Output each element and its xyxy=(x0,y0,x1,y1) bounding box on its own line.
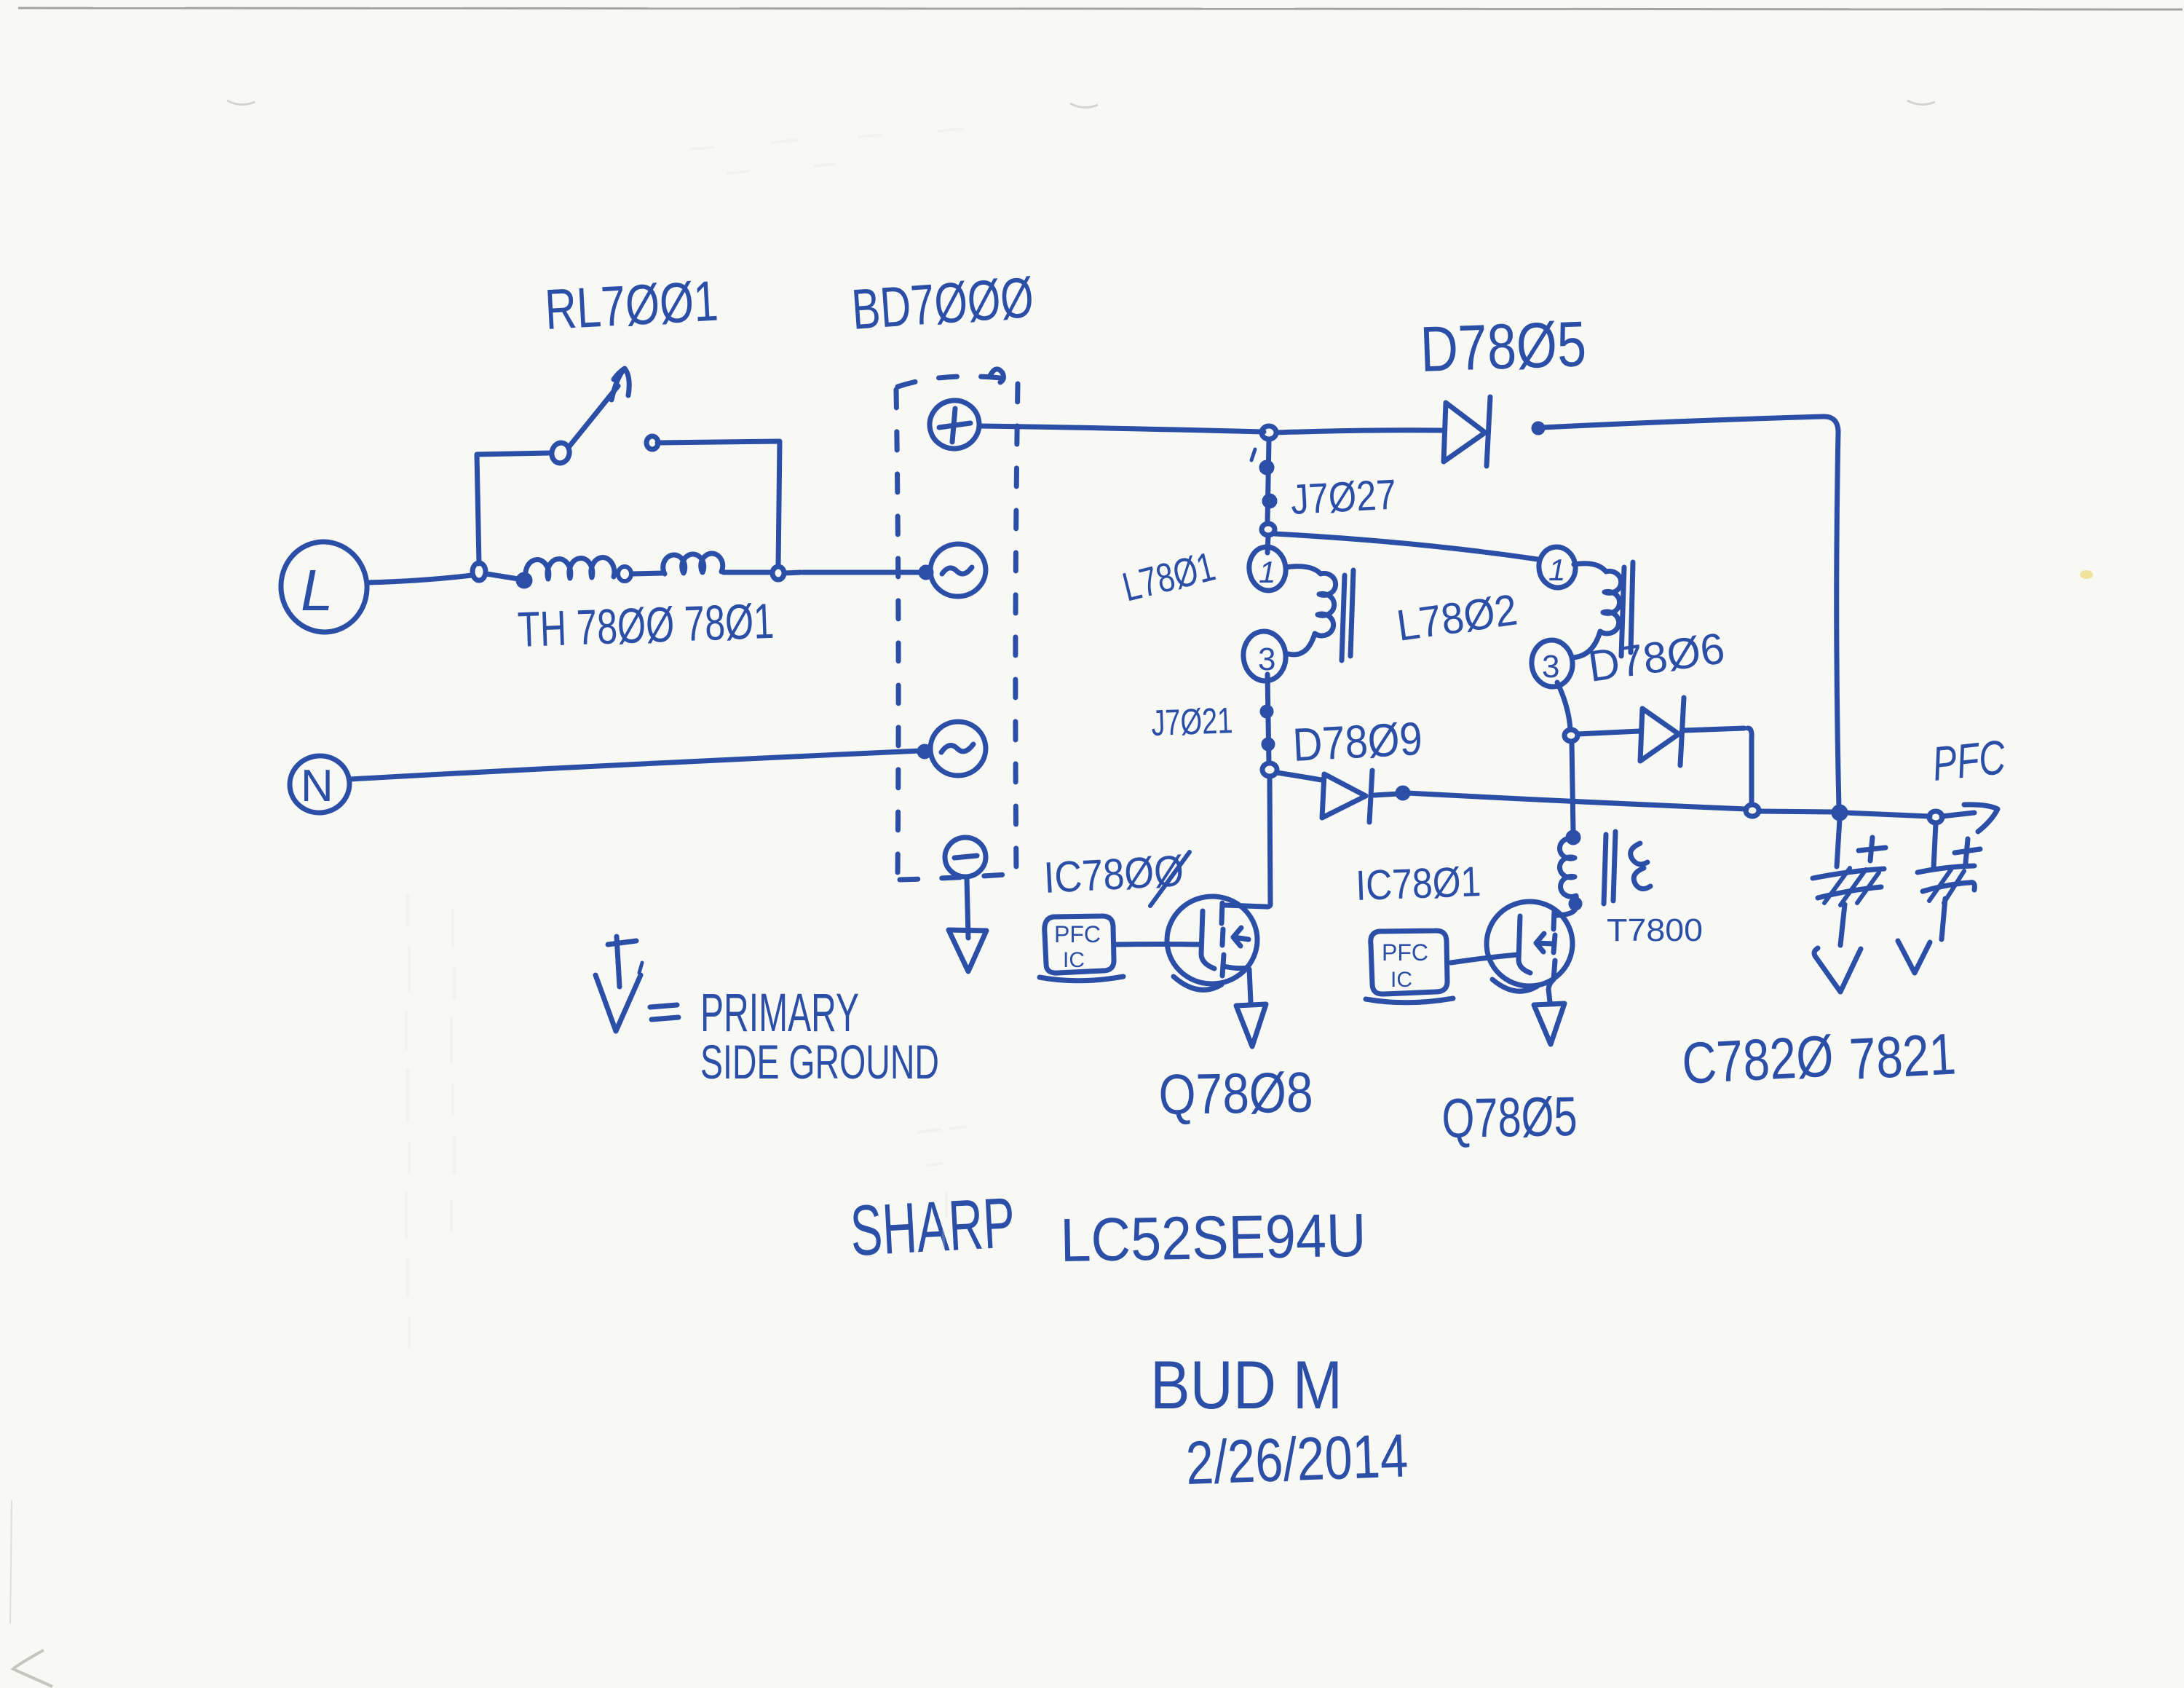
wire L to relay network xyxy=(367,575,472,583)
wire to TH7801 xyxy=(632,573,662,574)
paper fleck xyxy=(2080,570,2093,579)
relay RL7001 bypass left leg xyxy=(477,453,550,564)
transformer T7800 secondary winding xyxy=(1631,843,1650,889)
svg-text:PFC: PFC xyxy=(1382,939,1428,966)
wire D7806 node down to T7800 xyxy=(1572,741,1573,833)
wire D7805 to right rail corner xyxy=(1543,417,1838,431)
bridge BD7000 dashed outline xyxy=(896,376,1018,880)
wire junction down to Q7808 drain xyxy=(1225,777,1270,907)
svg-text:BD7ØØØ: BD7ØØØ xyxy=(850,265,1036,342)
slash on IC7800 label xyxy=(1150,852,1190,906)
junction dot PFC node xyxy=(1834,807,1845,819)
node between thermistors xyxy=(618,567,631,581)
wire N to bridge ~ terminal xyxy=(350,751,920,779)
wire junction down through J7027 xyxy=(1267,440,1269,523)
tick mark xyxy=(1251,449,1255,460)
node L (line terminal) xyxy=(275,536,373,637)
node D7806 rail junction xyxy=(1746,805,1759,816)
svg-text:PFC: PFC xyxy=(1930,730,2009,791)
wire right rail down to PFC node xyxy=(1837,431,1839,808)
junction dot after D7809 xyxy=(1398,788,1408,798)
bridge terminal ~ upper xyxy=(927,541,988,599)
relay RL7001 switch arm xyxy=(569,368,629,446)
svg-text:3: 3 xyxy=(1542,649,1559,685)
jumper J7027 dots xyxy=(1262,462,1275,506)
svg-text:IC: IC xyxy=(1063,948,1085,972)
node right contact on main wire xyxy=(772,567,784,580)
relay RL7001 right contact xyxy=(646,436,658,449)
PFC output arrow xyxy=(1964,805,1998,832)
svg-text:L78Ø2: L78Ø2 xyxy=(1393,585,1520,650)
svg-text:J7Ø21: J7Ø21 xyxy=(1150,700,1233,744)
node left contact on main wire xyxy=(472,563,486,580)
node N (neutral terminal) xyxy=(286,752,353,817)
paper top scan edge xyxy=(18,8,2183,9)
equals sign xyxy=(650,1005,678,1019)
ground below C7820 xyxy=(1814,948,1861,992)
svg-text:PFC: PFC xyxy=(1054,921,1101,947)
wire D7806 down to rail junction xyxy=(1748,728,1752,805)
junction dot T7800 top xyxy=(1568,832,1578,843)
svg-text:IC78Ø1: IC78Ø1 xyxy=(1355,858,1481,910)
svg-text:TH 78ØØ 78Ø1: TH 78ØØ 78Ø1 xyxy=(517,593,775,658)
wire PFC rail xyxy=(1759,811,1974,816)
bridge corner squiggle xyxy=(990,369,1003,382)
inductor L7801 xyxy=(1241,545,1353,683)
svg-text:PRIMARY: PRIMARY xyxy=(700,982,859,1043)
svg-text:2/26/2014: 2/26/2014 xyxy=(1184,1421,1409,1497)
wire IC7800 gate to Q7808 xyxy=(1117,942,1201,947)
ground below bridge minus xyxy=(949,877,986,971)
svg-text:1: 1 xyxy=(1548,553,1565,587)
ground below Q7808 xyxy=(1236,1004,1266,1046)
svg-text:3: 3 xyxy=(1258,642,1275,677)
PFC controller IC7800 box xyxy=(1040,916,1123,981)
wire TH7801 to right contact xyxy=(724,570,770,575)
wire D7809 to PFC node xyxy=(1374,793,1746,809)
node above L7801 pin 1 xyxy=(1262,524,1275,535)
wire to bridge ~ terminal xyxy=(785,572,922,573)
svg-text:SIDE GROUND: SIDE GROUND xyxy=(700,1035,939,1089)
capacitor C7820 xyxy=(1813,819,1886,945)
ground below Q7805 xyxy=(1534,1003,1564,1044)
transformer T7800 primary winding xyxy=(1559,838,1576,904)
wire node circle to L7801 pin1 xyxy=(1267,536,1268,553)
svg-text:RL7ØØ1: RL7ØØ1 xyxy=(543,269,719,342)
junction dot T7800 bottom xyxy=(1571,899,1580,908)
PFC controller IC7801 box xyxy=(1366,931,1453,1003)
node top rail junction xyxy=(1262,426,1276,439)
svg-text:D78Ø5: D78Ø5 xyxy=(1419,307,1587,385)
svg-text:BUD M: BUD M xyxy=(1150,1346,1342,1423)
relay RL7001 left contact xyxy=(550,441,571,465)
svg-text:IC78ØØ: IC78ØØ xyxy=(1042,846,1184,902)
relay RL7001 bypass right leg xyxy=(657,441,780,567)
junction dot at bridge lower ~ xyxy=(919,746,930,757)
bridge terminal ~ lower xyxy=(927,719,988,778)
mosfet Q7805 xyxy=(1483,898,1576,1002)
svg-text:L78Ø1: L78Ø1 xyxy=(1118,543,1219,610)
svg-text:C782Ø: C782Ø xyxy=(1680,1023,1835,1096)
wire to L7802 pin 1 xyxy=(1275,534,1538,559)
bridge terminal minus xyxy=(943,835,987,879)
diode D7809 xyxy=(1277,770,1372,822)
svg-text:T7800: T7800 xyxy=(1607,912,1703,948)
transformer T7800 core xyxy=(1604,832,1615,904)
svg-text:SHARP: SHARP xyxy=(848,1182,1016,1271)
svg-text:L: L xyxy=(301,558,333,623)
thermistor TH7801 xyxy=(663,553,723,574)
svg-text:D78Ø9: D78Ø9 xyxy=(1291,712,1424,771)
svg-text:7821: 7821 xyxy=(1848,1021,1957,1092)
svg-text:J7Ø27: J7Ø27 xyxy=(1289,470,1397,523)
diode D7806 xyxy=(1578,698,1744,765)
jumper J7021 dots xyxy=(1262,707,1273,749)
svg-text:LC52SE94U: LC52SE94U xyxy=(1060,1201,1367,1274)
node D7809 branch junction xyxy=(1262,763,1277,776)
bridge terminal + xyxy=(926,397,983,453)
node C7821 tap xyxy=(1929,811,1942,823)
inductor L7802 xyxy=(1530,545,1633,689)
junction dot at bridge ~ xyxy=(921,567,931,577)
capacitor C7821 xyxy=(1918,824,1980,939)
wire bridge + to top junction xyxy=(980,426,1264,432)
wire IC7801 gate to Q7805 xyxy=(1451,955,1517,963)
junction dot after D7805 xyxy=(1534,424,1543,433)
svg-text:IC: IC xyxy=(1390,968,1412,992)
wire L7802 pin3 down to D7806 node xyxy=(1557,682,1570,730)
ground below C7821 xyxy=(1898,941,1930,973)
thermistor TH7800 xyxy=(526,558,614,580)
diode D7805 xyxy=(1276,397,1490,466)
wire contact to TH7800 xyxy=(486,574,518,579)
junction dot xyxy=(518,575,530,586)
node D7806 branch from L7802 pin3 xyxy=(1564,730,1578,741)
svg-text:N: N xyxy=(301,761,333,811)
legend ground symbol xyxy=(596,936,642,1031)
svg-text:Q78Ø5: Q78Ø5 xyxy=(1441,1086,1578,1150)
faint scan artifacts xyxy=(227,100,1935,108)
svg-text:Q78Ø8: Q78Ø8 xyxy=(1158,1060,1314,1127)
wire L7801 pin3 down through J7021 xyxy=(1267,674,1269,763)
mosfet Q7808 xyxy=(1163,893,1261,1002)
svg-text:1: 1 xyxy=(1259,555,1275,589)
